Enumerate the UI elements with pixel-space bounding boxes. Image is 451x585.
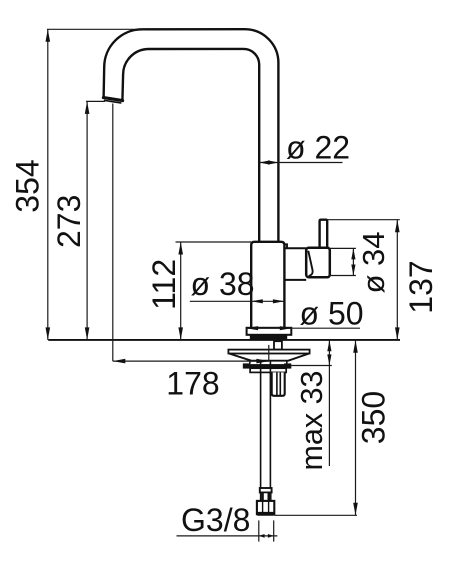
svg-text:ø 38: ø 38 [191, 266, 255, 302]
svg-text:G3/8: G3/8 [181, 502, 250, 538]
svg-text:ø 34: ø 34 [356, 231, 391, 293]
svg-text:max 33: max 33 [295, 370, 329, 470]
svg-text:350: 350 [355, 391, 391, 444]
svg-text:137: 137 [403, 260, 439, 313]
svg-text:354: 354 [10, 159, 46, 212]
svg-text:178: 178 [166, 365, 219, 401]
svg-text:ø 50: ø 50 [300, 296, 364, 332]
svg-text:112: 112 [146, 259, 182, 310]
svg-text:ø 22: ø 22 [286, 129, 350, 165]
svg-text:273: 273 [51, 195, 87, 248]
